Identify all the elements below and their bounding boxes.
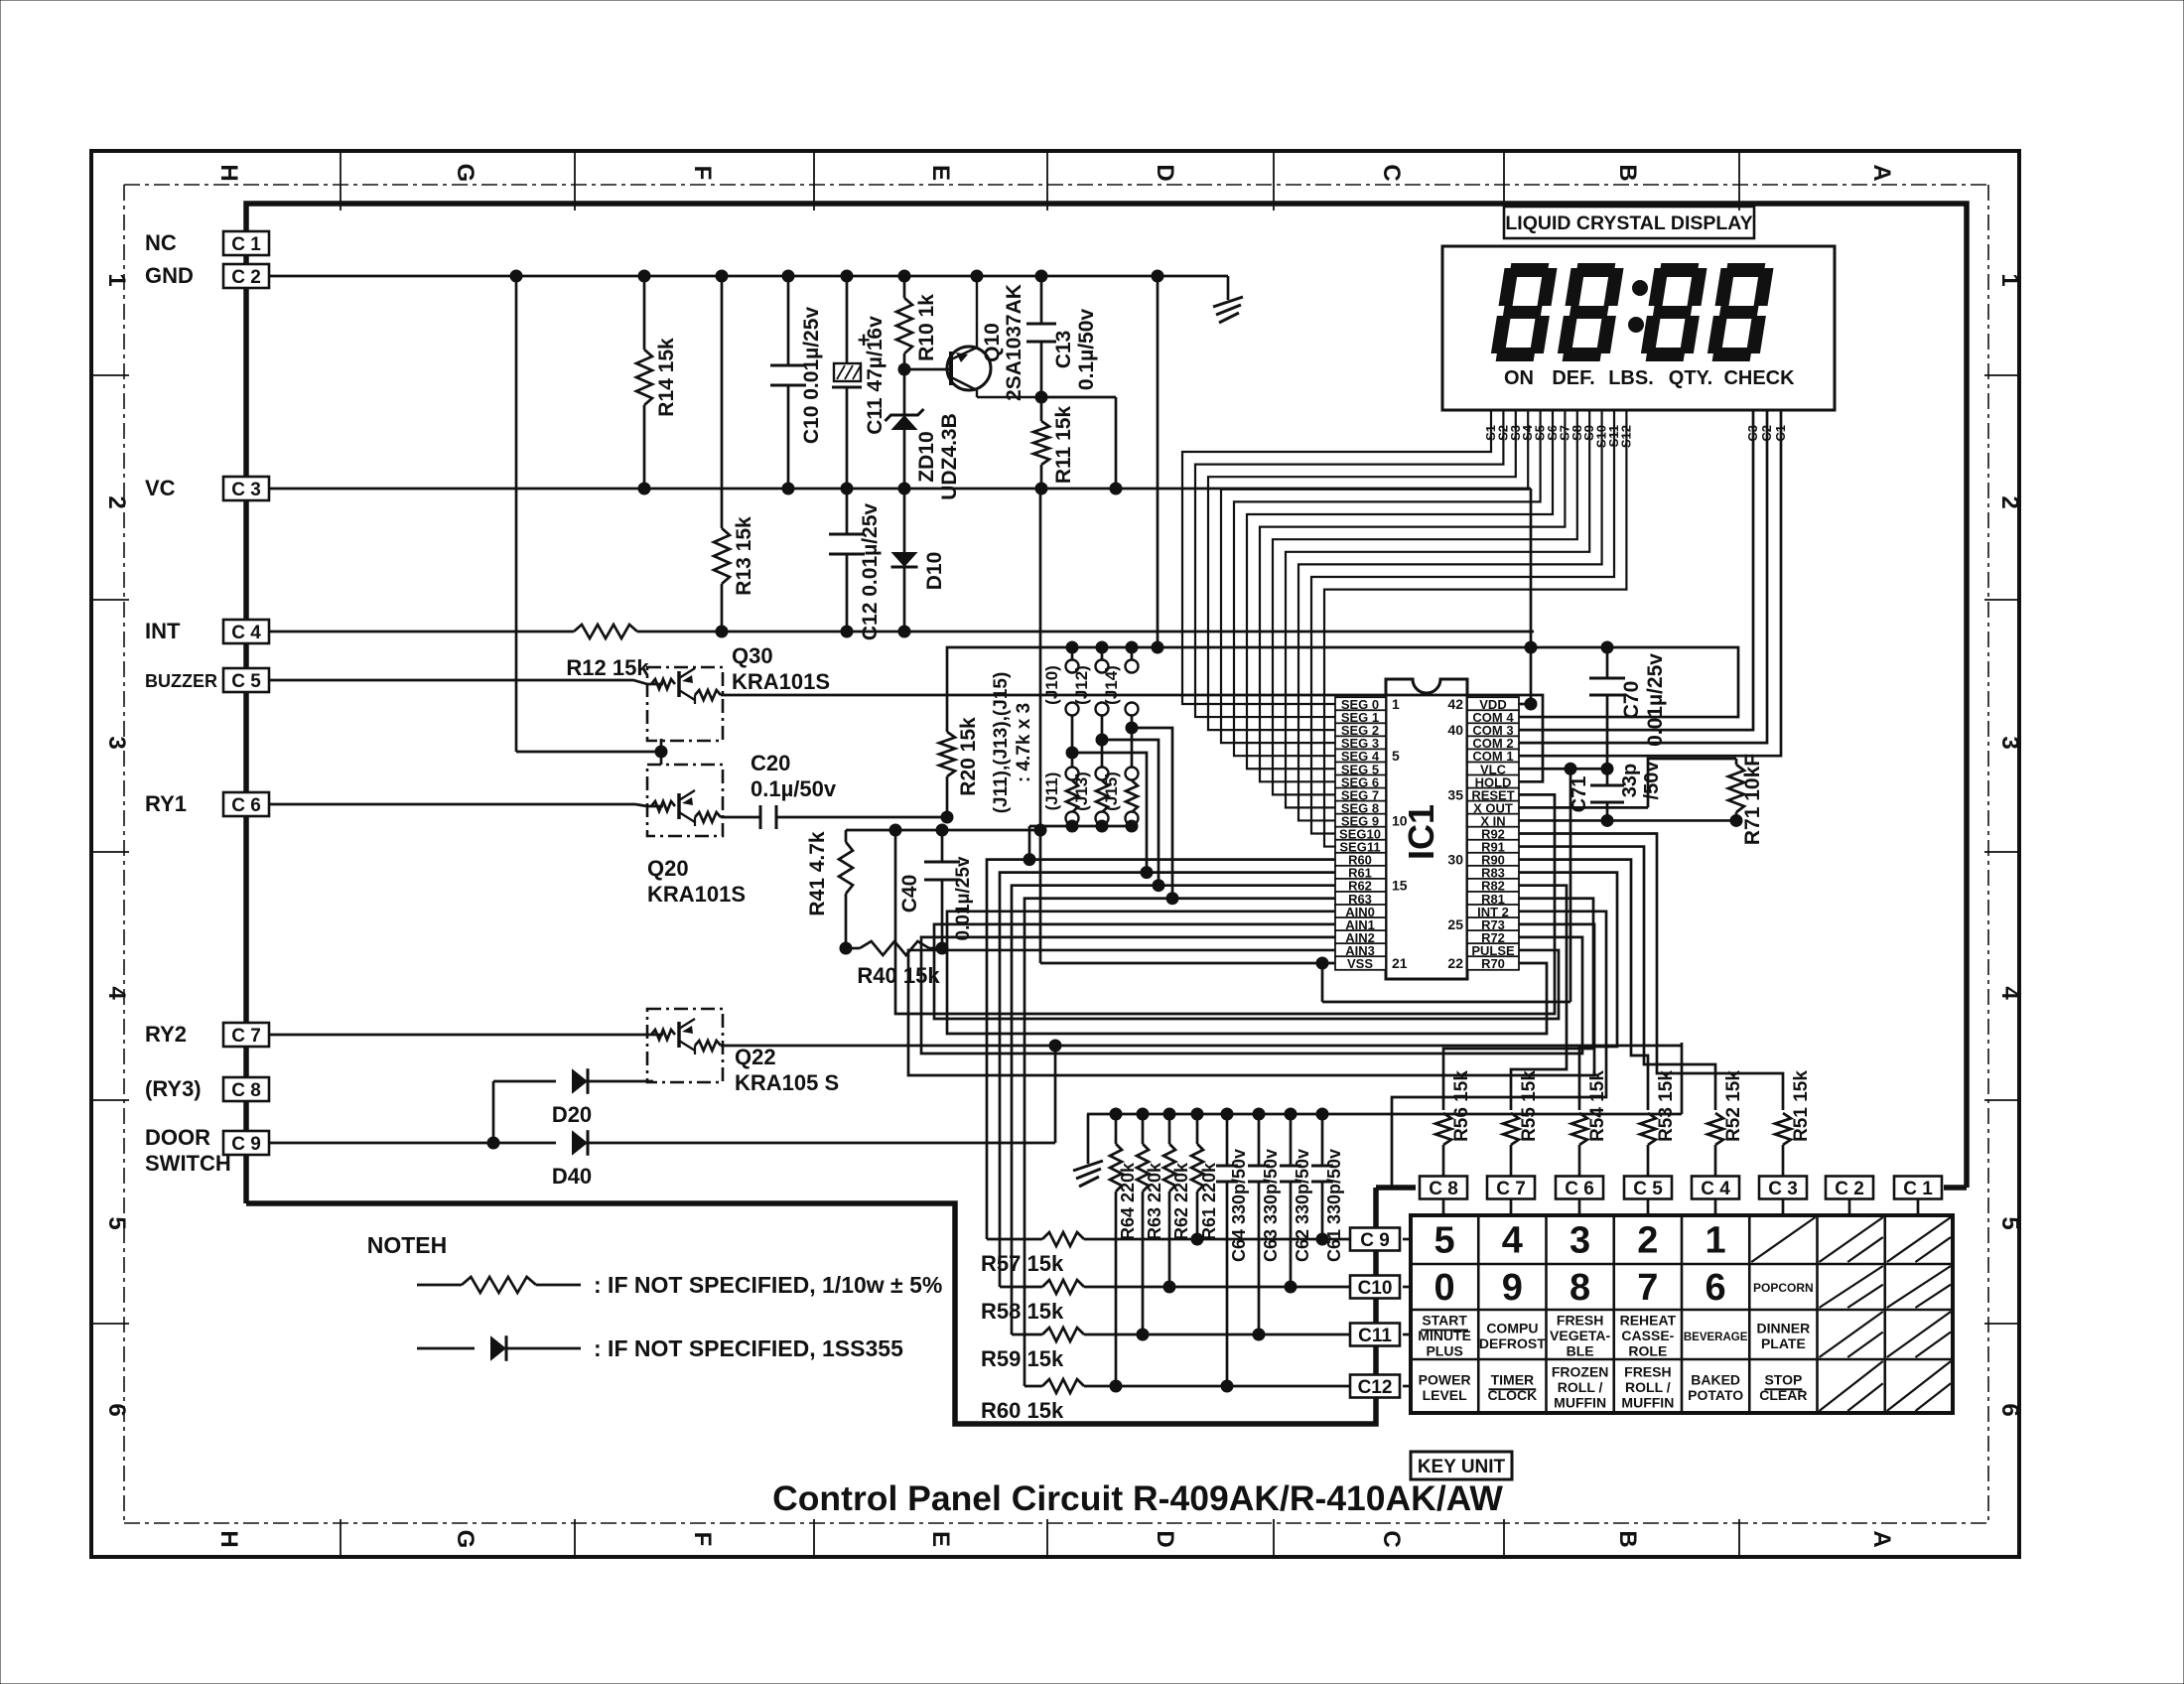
wire node 836 xyxy=(846,824,1040,836)
capacitor C12 xyxy=(829,489,865,631)
jumper (J14)/(J15) xyxy=(1126,641,1139,828)
resistor R14 xyxy=(636,276,652,489)
LCD body xyxy=(1442,246,1835,410)
wire LCD S1 to IC1 SEG0 xyxy=(1182,410,1491,704)
svg-text:C61 330p/50v: C61 330p/50v xyxy=(1324,1149,1344,1262)
svg-text:5: 5 xyxy=(1996,1216,2023,1229)
svg-text:KRA101S: KRA101S xyxy=(732,669,830,694)
resistor R60 xyxy=(1024,1379,1349,1393)
connector C7 (key column) xyxy=(1487,1177,1535,1200)
svg-text:R64 220k: R64 220k xyxy=(1118,1162,1138,1240)
svg-text:G: G xyxy=(452,1530,478,1549)
svg-text:R59 15k: R59 15k xyxy=(981,1346,1064,1371)
label R10 1k xyxy=(915,294,938,361)
wire LCD S4 to IC1 SEG3 xyxy=(1221,410,1528,743)
label R57 15k xyxy=(981,1251,1064,1276)
capacitor C11 electrolytic xyxy=(832,276,870,489)
label RY1 xyxy=(145,791,187,816)
svg-text:40: 40 xyxy=(1447,722,1463,738)
svg-text:2SA1037AK: 2SA1037AK xyxy=(1003,284,1025,401)
wire LCD S11 to IC1 SEG10 xyxy=(1311,410,1614,834)
row number 3 right xyxy=(1996,736,2023,749)
svg-text:MUFFIN: MUFFIN xyxy=(1621,1395,1674,1411)
connector C3 (key column) xyxy=(1759,1177,1807,1200)
svg-text:C 1: C 1 xyxy=(1903,1179,1933,1199)
label (J10) xyxy=(1042,665,1061,705)
svg-text:C40: C40 xyxy=(898,875,921,913)
svg-text:35: 35 xyxy=(1447,786,1463,802)
svg-text:C 2: C 2 xyxy=(231,267,261,288)
zone letter B bottom xyxy=(1614,1530,1641,1547)
svg-text:CLOCK: CLOCK xyxy=(1487,1387,1537,1403)
wire jumper bottom rail xyxy=(1024,820,1138,866)
label R11 15k xyxy=(1052,406,1075,485)
svg-text:D: D xyxy=(1152,164,1178,181)
label R55 15k xyxy=(1519,1070,1540,1142)
row number 2 right xyxy=(1996,495,2023,508)
resistor R40 xyxy=(840,941,948,955)
svg-text:R61 220k: R61 220k xyxy=(1199,1162,1219,1240)
svg-text:FROZEN: FROZEN xyxy=(1552,1364,1609,1380)
wire X IN xyxy=(1519,814,1742,826)
label C20 0.1u/50v xyxy=(751,751,837,801)
svg-text:F: F xyxy=(689,166,716,181)
connector C10 (key row) xyxy=(1350,1276,1400,1300)
wire AIN2 loop to R72 xyxy=(921,937,1582,1053)
label C62 330p/50v xyxy=(1293,1149,1312,1262)
svg-text:BEVERAGE: BEVERAGE xyxy=(1684,1332,1748,1343)
svg-text:10: 10 xyxy=(1392,812,1408,828)
svg-text:2: 2 xyxy=(1637,1220,1658,1262)
wire VLC drop xyxy=(1570,769,1572,1002)
connector C9 (DOOR) xyxy=(223,1131,269,1155)
transistor Q20 (digital) xyxy=(647,765,723,836)
resistor R59 xyxy=(1012,1328,1349,1341)
svg-text:: 4.7k x 3: : 4.7k x 3 xyxy=(1014,703,1034,782)
svg-text:6: 6 xyxy=(103,1403,130,1416)
svg-text:TIMER: TIMER xyxy=(1491,1371,1535,1387)
wire C3 to key grid xyxy=(1782,1199,1785,1215)
svg-text:C 7: C 7 xyxy=(231,1026,261,1047)
wire AIN3 loop to R73 xyxy=(908,924,1594,1075)
svg-text:: IF NOT SPECIFIED, 1/10w ± 5: : IF NOT SPECIFIED, 1/10w ± 5% xyxy=(594,1272,942,1298)
label (J14) xyxy=(1102,665,1121,705)
svg-text:42: 42 xyxy=(1447,696,1463,712)
svg-text:2: 2 xyxy=(1996,495,2023,508)
label R62 220k xyxy=(1171,1162,1191,1240)
LCD common pin labels C3 C2 C1 xyxy=(1745,425,1788,442)
resistor R57 xyxy=(987,1232,1349,1246)
wire Q22 output xyxy=(723,1040,1682,1052)
wire AIN1 loop to PULSE xyxy=(934,924,1559,1019)
LCD 88:88 digits xyxy=(1492,265,1772,359)
svg-text:R13 15k: R13 15k xyxy=(733,516,755,596)
svg-text:Q20: Q20 xyxy=(647,856,689,881)
svg-text:30: 30 xyxy=(1447,852,1463,868)
svg-text:(J11): (J11) xyxy=(1042,772,1061,811)
svg-text:SWITCH: SWITCH xyxy=(145,1151,231,1176)
wire C6 to key grid xyxy=(1578,1199,1581,1215)
resistor R58 xyxy=(1000,1280,1349,1294)
svg-text:R54 15k: R54 15k xyxy=(1587,1070,1608,1142)
svg-text:MINUTE: MINUTE xyxy=(1418,1328,1471,1343)
svg-text:4: 4 xyxy=(1996,986,2023,1000)
zone letter D top xyxy=(1152,164,1178,181)
wire Q30-Q20 link xyxy=(660,739,663,765)
svg-text:C: C xyxy=(1378,164,1405,181)
svg-text:C 4: C 4 xyxy=(231,623,261,643)
wire RESET xyxy=(889,794,1555,1014)
svg-text:C 1: C 1 xyxy=(231,234,261,255)
zone letter E bottom xyxy=(927,1531,954,1547)
svg-text:C 5: C 5 xyxy=(231,671,261,692)
svg-text:R62 220k: R62 220k xyxy=(1171,1162,1191,1240)
svg-text:B: B xyxy=(1614,164,1641,181)
wire VC rail xyxy=(269,488,1531,491)
label R59 15k xyxy=(981,1346,1064,1371)
svg-text:C 6: C 6 xyxy=(1565,1179,1594,1199)
svg-text:R20 15k: R20 15k xyxy=(957,717,980,796)
svg-text:ROLE: ROLE xyxy=(1628,1343,1667,1359)
key FRESH VEGETABLE xyxy=(1550,1313,1611,1359)
svg-text:VSS: VSS xyxy=(1347,956,1373,971)
frame inner dash-dot margin xyxy=(124,185,1988,1523)
zone letter G bottom xyxy=(452,1530,478,1549)
label C40 xyxy=(898,875,921,913)
svg-text:UDZ4.3B: UDZ4.3B xyxy=(938,413,961,500)
capacitor C70 xyxy=(1589,647,1625,769)
svg-text:/50v: /50v xyxy=(1641,761,1663,800)
row number 5 left xyxy=(103,1216,130,1229)
svg-text:4: 4 xyxy=(103,986,130,1000)
wire BUZZER to Q30 xyxy=(269,680,647,684)
resistor R64 xyxy=(1110,1114,1122,1392)
svg-text:0: 0 xyxy=(1434,1267,1455,1309)
wire R81 to key column xyxy=(1443,899,1593,1110)
capacitor C61 xyxy=(1311,1114,1333,1245)
connector C2 (key column) xyxy=(1826,1177,1873,1200)
node Q10 collector xyxy=(1035,391,1047,403)
svg-text:R53 15k: R53 15k xyxy=(1656,1070,1677,1142)
label C40 value xyxy=(953,856,974,940)
row number 4 right xyxy=(1996,986,2023,1000)
IC1 pin numbers xyxy=(1392,696,1463,971)
wire GND drop x1166 xyxy=(1157,276,1160,647)
capacitor C10 xyxy=(770,276,806,489)
svg-text:NC: NC xyxy=(145,230,177,255)
wire R63 to key row 4 xyxy=(1024,899,1335,1386)
outer border frame xyxy=(91,151,2019,1557)
key COMPU DEFROST xyxy=(1479,1320,1546,1351)
zone letter F bottom xyxy=(689,1532,716,1547)
connector C4 (key column) xyxy=(1692,1177,1739,1200)
zone letter E top xyxy=(927,165,954,181)
svg-text:POPCORN: POPCORN xyxy=(1753,1281,1814,1295)
label C70 0.01u/25v xyxy=(1620,653,1667,747)
svg-text:R11 15k: R11 15k xyxy=(1052,406,1075,485)
label R53 15k xyxy=(1656,1070,1677,1142)
resistor R55 xyxy=(1503,1113,1519,1177)
svg-text:D40: D40 xyxy=(552,1164,592,1189)
diode D10 xyxy=(891,489,918,631)
svg-text:0.1µ/50v: 0.1µ/50v xyxy=(751,776,837,801)
svg-text:ROLL /: ROLL / xyxy=(1558,1379,1603,1395)
resistor R61 xyxy=(1191,1114,1203,1245)
svg-text:15: 15 xyxy=(1392,878,1408,894)
zone letter G top xyxy=(452,164,478,183)
svg-text:(J12): (J12) xyxy=(1072,665,1091,705)
wire C10 to key grid xyxy=(1403,1286,1411,1289)
svg-text:R12 15k: R12 15k xyxy=(566,655,649,680)
svg-text:CASSE-: CASSE- xyxy=(1621,1328,1674,1343)
svg-text:3: 3 xyxy=(1996,736,2023,749)
capacitor C20 in series xyxy=(723,805,953,829)
legend diode symbol xyxy=(417,1335,581,1361)
svg-text:8: 8 xyxy=(1570,1267,1590,1309)
label Q30 KRA101S xyxy=(732,643,830,694)
label NC xyxy=(145,230,177,255)
svg-text:C 6: C 6 xyxy=(231,795,261,816)
svg-text:POTATO: POTATO xyxy=(1688,1387,1743,1403)
label C11 47u/16v xyxy=(864,316,887,435)
key START/MINUTE PLUS xyxy=(1418,1313,1471,1359)
svg-text:H: H xyxy=(215,1530,242,1547)
svg-text:C 9: C 9 xyxy=(1360,1230,1390,1251)
label R54 15k xyxy=(1587,1070,1608,1142)
svg-text:ZD10: ZD10 xyxy=(915,431,938,482)
svg-text:Q22: Q22 xyxy=(735,1045,776,1069)
wire bus riser from Q22 xyxy=(1681,1043,1684,1114)
row number 6 right xyxy=(1996,1403,2023,1416)
svg-text:C 8: C 8 xyxy=(1429,1179,1458,1199)
wire (J10) select branch xyxy=(1066,747,1153,879)
key FRESH ROLL MUFFIN xyxy=(1621,1364,1674,1411)
resistor R52 xyxy=(1707,1113,1723,1177)
svg-text:C10 0.01µ/25v: C10 0.01µ/25v xyxy=(800,307,823,445)
svg-text:DEF.: DEF. xyxy=(1552,367,1594,389)
wire AIN0 loop to R70 xyxy=(947,912,1547,1034)
IC1 body xyxy=(1386,679,1467,979)
resistor R41 xyxy=(839,830,853,948)
svg-text:C12: C12 xyxy=(1358,1377,1393,1398)
wire LCD S5 to IC1 SEG4 xyxy=(1234,410,1541,756)
svg-text:CLEAR: CLEAR xyxy=(1759,1387,1807,1403)
capacitor C71 xyxy=(1590,769,1624,826)
svg-text:C70: C70 xyxy=(1620,681,1643,720)
wire pull-up rail xyxy=(947,647,1738,732)
svg-text:BLE: BLE xyxy=(1567,1343,1594,1359)
diode D20 xyxy=(493,1068,653,1143)
svg-text:LBS.: LBS. xyxy=(1608,367,1654,389)
resistor R71 xyxy=(1648,759,1744,820)
label Q22 KRA105 S xyxy=(735,1045,839,1095)
svg-text:C64 330p/50v: C64 330p/50v xyxy=(1229,1149,1249,1262)
wire C2 to key grid xyxy=(1848,1199,1851,1215)
svg-text:VEGETA-: VEGETA- xyxy=(1550,1328,1611,1343)
label (J12) xyxy=(1072,665,1091,705)
zone letter B top xyxy=(1614,164,1641,181)
svg-text:LEVEL: LEVEL xyxy=(1423,1387,1468,1403)
svg-text:25: 25 xyxy=(1447,916,1463,932)
wire C4 to key grid xyxy=(1714,1199,1717,1215)
zone letter D bottom xyxy=(1152,1530,1178,1547)
wire (J12) select branch xyxy=(1096,734,1164,892)
key POWER LEVEL xyxy=(1419,1371,1471,1403)
capacitor C13 xyxy=(1026,276,1056,397)
svg-text:6: 6 xyxy=(1706,1267,1726,1309)
svg-text:1: 1 xyxy=(103,273,130,286)
LCD annunciators xyxy=(1504,367,1795,389)
svg-text:ROLL /: ROLL / xyxy=(1625,1379,1671,1395)
svg-text:0.1µ/50v: 0.1µ/50v xyxy=(1075,309,1098,390)
wire R62 to key row 3 xyxy=(1012,886,1335,1334)
key POPCORN xyxy=(1753,1281,1814,1295)
label C13 0.1u/50v xyxy=(1052,309,1098,390)
KEY UNIT box xyxy=(1411,1452,1512,1479)
svg-text:MUFFIN: MUFFIN xyxy=(1554,1395,1606,1411)
resistor R13 xyxy=(714,276,730,631)
svg-text:R60 15k: R60 15k xyxy=(981,1398,1064,1423)
svg-text:R41 4.7k: R41 4.7k xyxy=(806,831,829,916)
connector C4 (INT) xyxy=(223,620,269,643)
svg-text:RY2: RY2 xyxy=(145,1022,187,1047)
svg-text:E: E xyxy=(927,1531,954,1547)
svg-text:C: C xyxy=(1378,1530,1405,1547)
svg-text:C 5: C 5 xyxy=(1633,1179,1663,1199)
zone letter H top xyxy=(215,164,242,181)
svg-text:1: 1 xyxy=(1996,273,2023,286)
svg-text:FRESH: FRESH xyxy=(1557,1313,1603,1329)
ground symbol bottom xyxy=(1073,1114,1103,1187)
svg-text:0.01µ/25v: 0.01µ/25v xyxy=(953,856,974,940)
key STOP/CLEAR xyxy=(1759,1371,1807,1403)
svg-text:3: 3 xyxy=(1570,1220,1590,1262)
capacitor C62 xyxy=(1280,1114,1301,1293)
key BEVERAGE xyxy=(1684,1332,1748,1343)
wire (J14) select branch xyxy=(1126,722,1178,905)
svg-text:: IF NOT SPECIFIED, 1SS355: : IF NOT SPECIFIED, 1SS355 xyxy=(594,1335,903,1361)
label C63 330p/50v xyxy=(1261,1149,1281,1262)
label Q10 2SA1037AK xyxy=(981,284,1025,401)
wire R60 to key row 1 xyxy=(987,860,1335,1239)
svg-text:S12: S12 xyxy=(1618,425,1633,448)
svg-text:(J10): (J10) xyxy=(1042,665,1061,705)
svg-text:R70: R70 xyxy=(1481,956,1505,971)
label R20 15k xyxy=(957,717,980,796)
label R40 15k xyxy=(857,963,940,988)
svg-text:D10: D10 xyxy=(923,552,946,591)
svg-text:KEY UNIT: KEY UNIT xyxy=(1418,1457,1506,1477)
zone letter C top xyxy=(1378,164,1405,181)
connector C5 (BUZZER) xyxy=(223,668,269,692)
label R61 220k xyxy=(1199,1162,1219,1240)
wire C1 to key grid xyxy=(1917,1199,1920,1215)
svg-text:R10 1k: R10 1k xyxy=(915,294,938,361)
svg-text:5: 5 xyxy=(103,1216,130,1229)
svg-text:F: F xyxy=(689,1532,716,1547)
connector C8 ((RY3)) xyxy=(223,1077,269,1101)
wire R61 to key row 2 xyxy=(1000,873,1335,1287)
jumper (J12)/(J13) xyxy=(1096,641,1109,828)
junctions pull-up rail xyxy=(1152,641,1613,653)
key hatched cells xyxy=(1751,1217,1951,1411)
wire VSS riser xyxy=(1034,489,1046,963)
svg-text:INT: INT xyxy=(145,619,181,643)
wire LCD S8 to IC1 SEG7 xyxy=(1273,410,1577,794)
resistor R56 xyxy=(1435,1113,1451,1177)
capacitor C40 xyxy=(924,830,960,948)
svg-text:R51 15k: R51 15k xyxy=(1791,1070,1812,1142)
wire LCD S7 to IC1 SEG6 xyxy=(1260,410,1565,781)
wire GND feed to Q30/Q20 xyxy=(516,276,667,758)
wire collector feed xyxy=(1041,397,1116,489)
wire VDD to VC rail xyxy=(1519,489,1537,710)
resistor R62 xyxy=(1163,1114,1175,1293)
connector C7 (RY2) xyxy=(223,1023,269,1047)
wire bottom bus xyxy=(1087,1113,1682,1116)
main ground ring bus xyxy=(246,204,1967,1424)
wire C11 to key grid xyxy=(1403,1333,1411,1336)
svg-text:R63 220k: R63 220k xyxy=(1145,1162,1164,1240)
resistor R20 xyxy=(939,732,955,817)
label C12 0.01u/25v xyxy=(859,503,882,641)
label Q20 KRA101S xyxy=(647,856,746,907)
svg-text:POWER: POWER xyxy=(1419,1371,1471,1387)
wire LCD S12 to IC1 SEG11 xyxy=(1324,410,1626,847)
wire LCD S2 to IC1 SEG1 xyxy=(1195,410,1503,717)
label D20 xyxy=(552,1102,592,1127)
resistor R51 xyxy=(1775,1113,1791,1177)
svg-text:9: 9 xyxy=(1502,1267,1523,1309)
wire VSS xyxy=(1040,957,1570,1002)
key FROZEN ROLL MUFFIN xyxy=(1552,1364,1609,1411)
svg-text:C11 47µ/16v: C11 47µ/16v xyxy=(864,316,887,435)
wire C7 to key grid xyxy=(1510,1199,1513,1215)
connector C12 (key row) xyxy=(1350,1375,1400,1399)
row number 6 left xyxy=(103,1403,130,1416)
svg-text:33p: 33p xyxy=(1619,764,1641,797)
junctions on INT rail xyxy=(716,626,910,637)
svg-text:C63 330p/50v: C63 330p/50v xyxy=(1261,1149,1281,1262)
label D40 xyxy=(552,1164,592,1189)
node Q10 base xyxy=(898,363,910,375)
svg-text:21: 21 xyxy=(1392,955,1408,971)
label GND xyxy=(145,263,194,288)
svg-text:5: 5 xyxy=(1392,748,1400,764)
svg-text:QTY.: QTY. xyxy=(1669,367,1712,389)
svg-text:C 3: C 3 xyxy=(1768,1179,1798,1199)
label R51 15k xyxy=(1791,1070,1812,1142)
svg-text:KRA105 S: KRA105 S xyxy=(735,1070,839,1095)
row number 1 right xyxy=(1996,273,2023,286)
svg-text:4: 4 xyxy=(1502,1220,1523,1262)
zone letter A top xyxy=(1868,164,1895,181)
svg-text:CHECK: CHECK xyxy=(1723,367,1795,389)
key REHEAT CASSEROLE xyxy=(1620,1313,1677,1359)
svg-text:START: START xyxy=(1422,1313,1467,1329)
key unit grid xyxy=(1411,1215,1953,1413)
svg-text:Q10: Q10 xyxy=(981,323,1004,362)
svg-text:Q30: Q30 xyxy=(732,643,773,668)
label (J13) xyxy=(1072,772,1091,811)
svg-text:REHEAT: REHEAT xyxy=(1620,1313,1677,1329)
wire LCD S6 to IC1 SEG5 xyxy=(1247,410,1553,769)
svg-text:C 3: C 3 xyxy=(231,480,261,500)
row number 1 left xyxy=(103,273,130,286)
wire HOLD from Q30 xyxy=(723,695,1543,781)
label (J11) xyxy=(1042,772,1061,811)
resistor R63 xyxy=(1137,1114,1149,1340)
